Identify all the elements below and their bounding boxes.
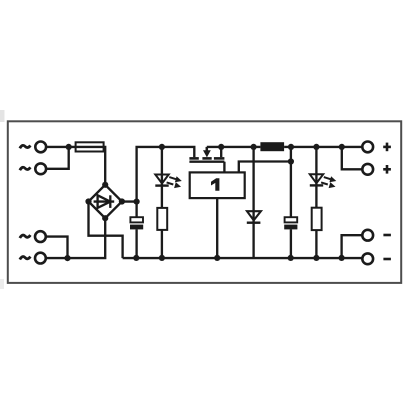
junction node C feedback [288,158,294,164]
bridge vertex dot left [85,198,91,204]
resistor R2 [312,208,322,230]
resistor R1 [157,208,167,230]
terminal 1 (~ AC input) [35,142,46,153]
top rail inductor to + terminal [284,146,362,148]
module outline border [8,121,401,283]
wire IC ground pin to rail [216,198,218,258]
terminal 8 (- output) [362,253,373,264]
wire terminal3 down to node B [46,237,68,259]
terminal 5 (+ output) [362,142,373,153]
wire R2 to rail [315,230,317,258]
DC- bottom rail [123,257,363,259]
junction node A [66,144,72,150]
capacitor C2 (polarized) [284,217,297,229]
~ label terminal 1 [20,145,31,148]
IC U1 label 1 [211,178,219,190]
terminal 6 (+ output) [362,164,373,175]
wire terminal1 to fuse [46,146,76,148]
- label terminal 8 [383,258,391,261]
bridge vertex dot right [119,198,125,204]
- label terminal 7 [383,234,391,237]
bridge rectifier BR1 [89,185,122,218]
wire C1 bottom lead [135,229,137,258]
wire LED2 top lead [315,147,317,186]
+ label terminal 6 [383,165,391,174]
junction C1 tap [134,199,140,205]
top rail MOSFET to inductor [207,146,261,148]
wire diode D1 to rail [252,223,254,258]
wire bridge bottom to AC2 rail [46,218,105,258]
wire LED1 top lead [161,147,163,186]
junction LED2 rail tap [313,144,319,150]
capacitor C1 (polarized) [130,217,143,229]
LED1 (green indicator) [155,175,182,189]
junction diode tap [251,144,257,150]
IC U1 box [190,172,245,198]
wire bridge plus to top rail [122,147,194,202]
wire C1 top lead [135,202,137,218]
fuse F1 [76,142,104,151]
wire LED2 to R2 [315,185,317,207]
junction node B [64,255,70,261]
wire fuse to bridge top [104,147,106,185]
wire - branch to terminal 7 [342,235,363,258]
terminal 4 (~ AC input) [35,253,46,264]
MOSFET Q1 drain stub [220,147,222,157]
wire C2 bottom lead [290,229,292,258]
MOSFET Q1 gate bar [189,161,224,163]
junction drain stub [218,144,224,150]
bridge vertex dot bottom [102,215,108,221]
MOSFET Q1 bulk arrow stub [203,147,211,158]
junction LED1 rail tap [159,144,165,150]
bridge vertex dot top [102,182,108,188]
junction C1 bottom [133,255,139,261]
junction R2 bottom [313,255,319,261]
~ label terminal 2 [20,167,31,170]
wire gate to IC [223,162,225,173]
junction R1 bottom [159,255,165,261]
junction C2 bottom [288,255,294,261]
junction IC ground [214,255,220,261]
wire terminal2 up to node A [46,147,69,169]
wire LED1 to R1 [161,186,163,208]
inductor L1 [260,142,284,151]
MOSFET Q1 channel segments [189,157,224,160]
+ label terminal 5 [383,143,391,152]
~ label terminal 4 [20,257,31,260]
wire C2 top lead [290,147,292,217]
wire IC feedback to node C [239,162,291,173]
~ label terminal 3 [20,235,31,238]
terminal 2 (~ AC input) [35,163,46,174]
scan smudge top-left edge [0,110,5,122]
wire diode D1 top lead [252,147,254,223]
wire R1 to rail [161,230,163,258]
junction C2 rail tap [288,144,294,150]
scan smudge bottom-left edge [0,279,4,289]
diode D1 freewheeling [247,211,261,223]
wire bridge minus step to DC- rail [89,202,123,259]
LED2 (output indicator) [310,174,337,188]
terminal 7 (- output) [362,230,373,241]
junction - branch [339,255,345,261]
terminal 3 (~ AC input) [35,231,46,242]
junction + branch [339,144,345,150]
wire + branch to terminal 6 [342,147,363,169]
